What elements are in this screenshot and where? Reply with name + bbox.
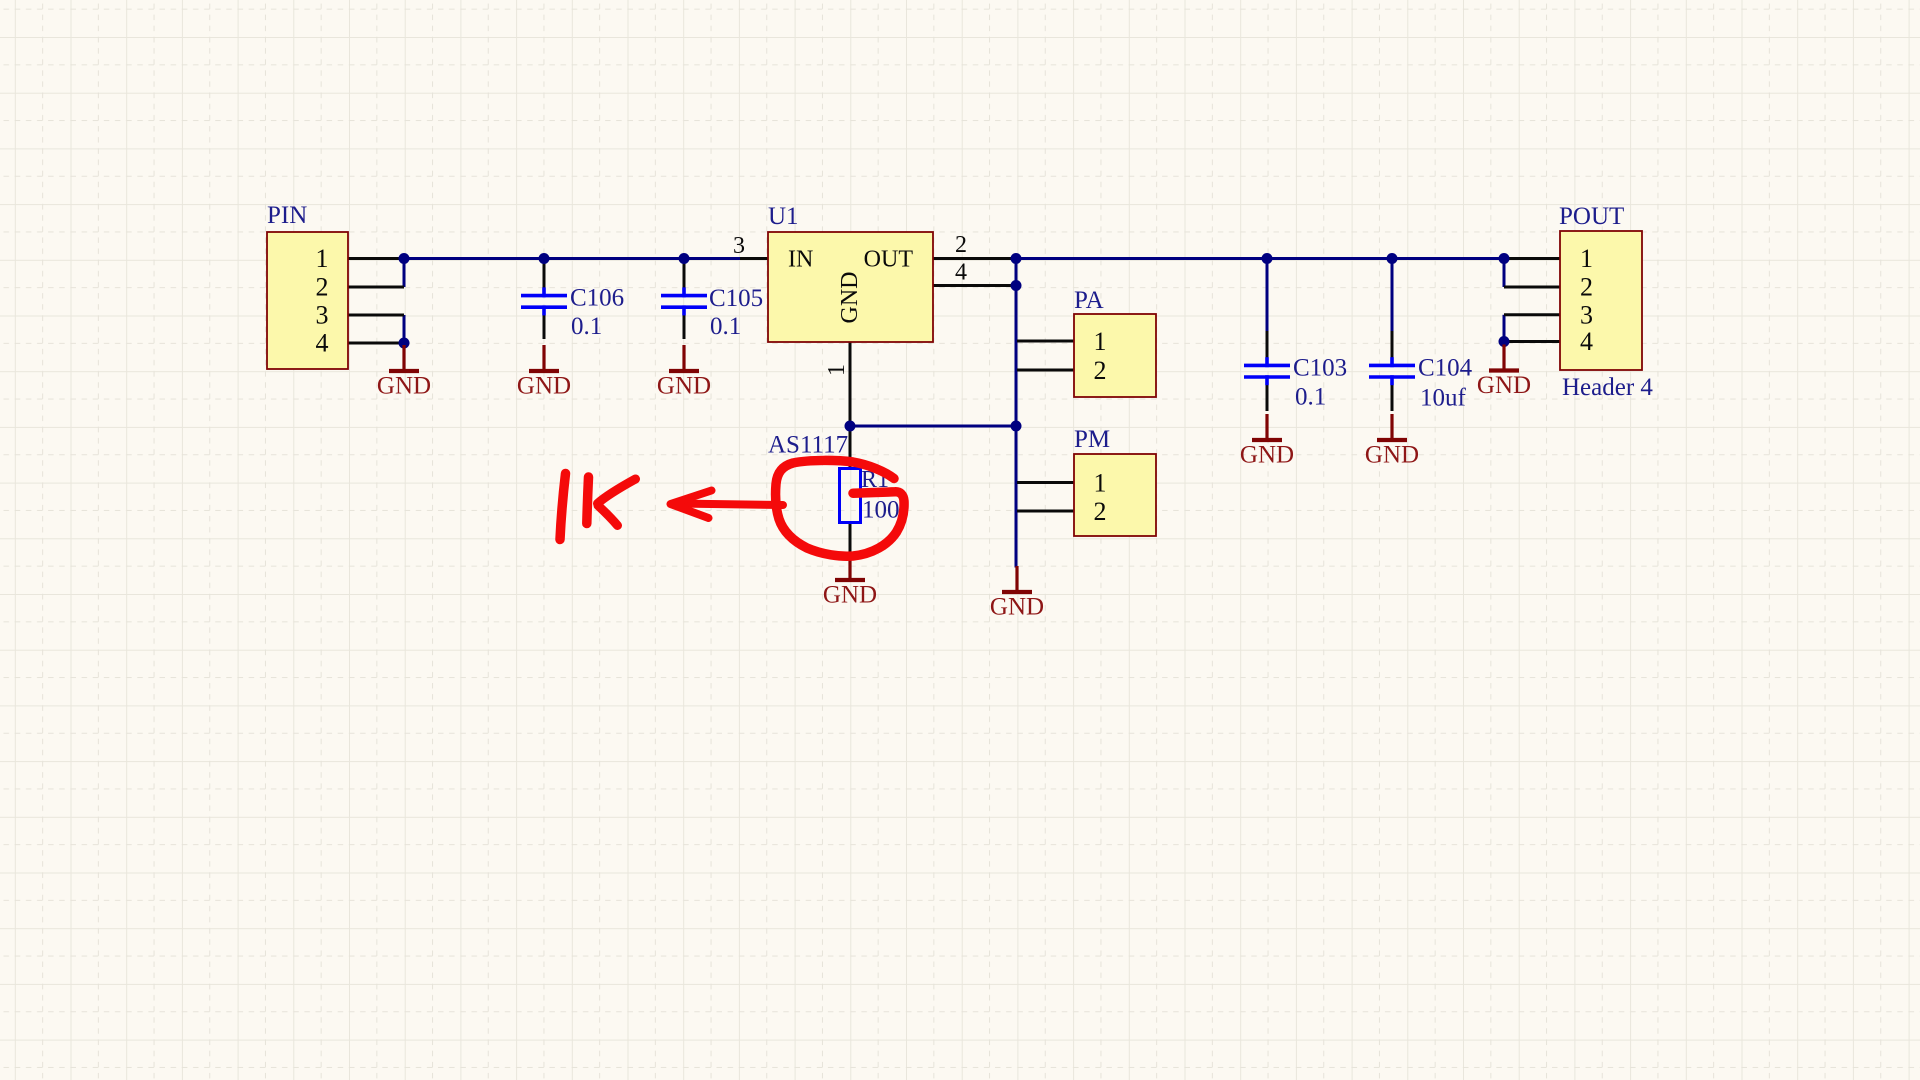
svg-text:0.1: 0.1: [710, 313, 741, 340]
svg-text:GND: GND: [1240, 442, 1294, 469]
svg-text:GND: GND: [657, 373, 711, 400]
svg-text:PA: PA: [1074, 287, 1104, 314]
svg-text:AS1117: AS1117: [768, 432, 848, 459]
svg-text:POUT: POUT: [1559, 203, 1624, 230]
svg-text:GND: GND: [990, 594, 1044, 621]
svg-text:C106: C106: [570, 285, 624, 312]
svg-text:1: 1: [1094, 327, 1107, 356]
svg-text:PM: PM: [1074, 426, 1110, 453]
svg-text:1: 1: [1580, 244, 1593, 273]
svg-text:2: 2: [1094, 356, 1107, 385]
svg-text:1: 1: [1094, 469, 1107, 498]
svg-text:4: 4: [316, 329, 329, 358]
svg-text:2: 2: [316, 273, 329, 302]
svg-text:PIN: PIN: [267, 202, 307, 229]
svg-text:4: 4: [1580, 327, 1593, 356]
svg-text:10uf: 10uf: [1420, 385, 1467, 412]
svg-text:Header 4: Header 4: [1562, 374, 1653, 401]
svg-text:C104: C104: [1418, 355, 1473, 382]
svg-text:GND: GND: [823, 582, 877, 609]
svg-text:GND: GND: [1365, 442, 1419, 469]
svg-text:100: 100: [862, 497, 900, 524]
svg-text:C103: C103: [1293, 355, 1347, 382]
svg-text:0.1: 0.1: [1295, 384, 1326, 411]
svg-text:2: 2: [1580, 273, 1593, 302]
svg-text:0.1: 0.1: [571, 313, 602, 340]
svg-text:GND: GND: [377, 373, 431, 400]
svg-text:OUT: OUT: [864, 247, 914, 273]
svg-text:1: 1: [824, 364, 850, 376]
svg-text:2: 2: [1094, 497, 1107, 526]
svg-text:3: 3: [316, 301, 329, 330]
svg-text:3: 3: [733, 233, 745, 259]
svg-text:1: 1: [316, 244, 329, 273]
svg-text:4: 4: [955, 260, 967, 286]
svg-text:GND: GND: [837, 272, 863, 324]
svg-text:2: 2: [955, 232, 967, 258]
svg-text:U1: U1: [768, 203, 799, 230]
svg-text:GND: GND: [1477, 372, 1531, 399]
svg-text:C105: C105: [709, 285, 763, 312]
svg-text:GND: GND: [517, 373, 571, 400]
svg-text:IN: IN: [788, 247, 813, 273]
svg-text:3: 3: [1580, 300, 1593, 329]
